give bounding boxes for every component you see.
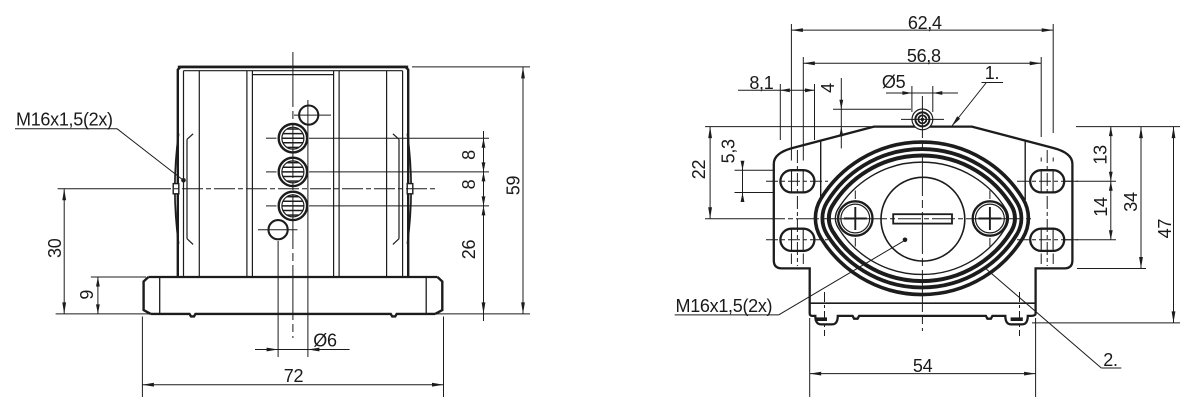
svg-text:22: 22 bbox=[689, 160, 709, 180]
svg-text:47: 47 bbox=[1155, 219, 1175, 239]
svg-text:5,3: 5,3 bbox=[719, 139, 739, 163]
svg-text:8: 8 bbox=[459, 150, 479, 160]
svg-text:26: 26 bbox=[459, 240, 479, 260]
svg-text:54: 54 bbox=[913, 356, 933, 376]
svg-text:9: 9 bbox=[77, 290, 97, 300]
svg-text:M16x1,5(2x): M16x1,5(2x) bbox=[676, 296, 773, 316]
svg-text:2.: 2. bbox=[1103, 350, 1117, 370]
svg-text:8: 8 bbox=[459, 179, 479, 189]
svg-text:34: 34 bbox=[1121, 192, 1141, 212]
svg-text:Ø6: Ø6 bbox=[313, 330, 337, 350]
svg-text:30: 30 bbox=[45, 238, 65, 258]
svg-text:72: 72 bbox=[284, 366, 304, 386]
svg-text:59: 59 bbox=[504, 176, 524, 196]
svg-text:1.: 1. bbox=[985, 63, 999, 83]
svg-text:Ø5: Ø5 bbox=[882, 72, 906, 92]
svg-text:56,8: 56,8 bbox=[907, 46, 941, 66]
svg-text:8,1: 8,1 bbox=[749, 73, 773, 93]
svg-text:62,4: 62,4 bbox=[908, 13, 942, 33]
svg-text:M16x1,5(2x): M16x1,5(2x) bbox=[16, 109, 113, 129]
svg-text:13: 13 bbox=[1091, 145, 1111, 165]
svg-text:14: 14 bbox=[1091, 197, 1111, 217]
svg-text:4: 4 bbox=[818, 83, 838, 93]
